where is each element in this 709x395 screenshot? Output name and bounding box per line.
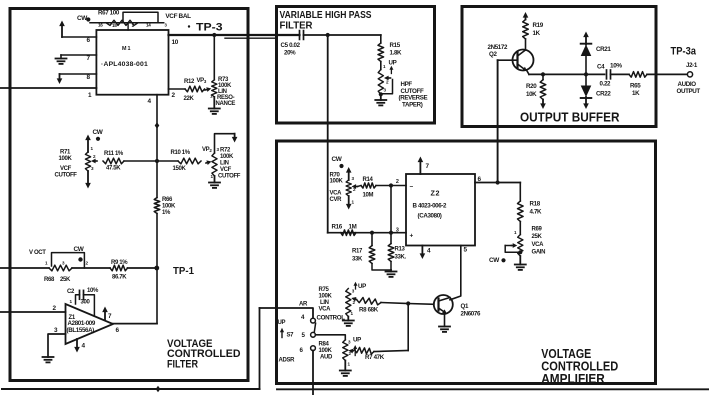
label R75: [319, 287, 330, 293]
capacitor C5: [300, 31, 304, 40]
label V OCT: [29, 250, 46, 256]
pin 3 M1: [165, 23, 168, 28]
label CW R67: [77, 15, 90, 22]
diode CR21: [581, 44, 592, 75]
label 1% R66: [162, 210, 171, 216]
svg-text:(BL1556A): (BL1556A): [67, 327, 95, 334]
resistor R10: [178, 158, 201, 164]
svg-text:R12: R12: [184, 79, 195, 85]
junction R17 node: [370, 231, 374, 235]
wire Z1 output: [113, 323, 157, 325]
pin 6 Z1: [116, 327, 120, 334]
svg-text:CUTOFF: CUTOFF: [55, 173, 78, 179]
label CR22: [596, 91, 611, 98]
svg-text:B 4023-006-2: B 4023-006-2: [413, 203, 448, 210]
resistor R66: [154, 198, 160, 214]
wiper R74: [384, 76, 391, 81]
pin 7 M1: [87, 55, 91, 62]
svg-text:TAPER): TAPER): [402, 101, 423, 108]
pin 1 Z1: [70, 299, 73, 304]
label R18: [530, 201, 541, 208]
svg-text:M1: M1: [122, 46, 132, 52]
pin 3 R72: [217, 147, 220, 152]
label VP3: [197, 78, 207, 84]
value BL1556A: [67, 327, 95, 334]
junction R73 top: [212, 33, 216, 37]
value 150K: [173, 166, 187, 172]
potentiometer R71: [85, 152, 90, 171]
wire R67 element: [90, 22, 164, 24]
label R19: [533, 22, 544, 29]
svg-text:AMPLIFIER: AMPLIFIER: [541, 372, 605, 386]
pin 16 M1: [98, 23, 103, 28]
wire output line: [529, 73, 605, 75]
svg-text:R10 1%: R10 1%: [171, 150, 191, 156]
pin 3 R74: [384, 88, 387, 93]
pin 6 M1 wire: [62, 36, 96, 38]
svg-text:R66: R66: [162, 197, 173, 203]
wire Q1 base to R7: [407, 304, 409, 351]
junction diamond AR: [156, 386, 161, 392]
resistor R67: [106, 20, 138, 25]
potentiometer R70: [346, 180, 351, 196]
pin 2 R84: [349, 351, 352, 356]
svg-text:R19: R19: [533, 22, 544, 29]
terminal 6: [311, 346, 316, 351]
junction diamond pin4: [155, 122, 160, 128]
label Z1: [69, 315, 76, 321]
svg-text:CR21: CR21: [596, 46, 611, 53]
svg-text:R84: R84: [319, 342, 330, 348]
label CW R70: [332, 156, 344, 168]
junction CR: [584, 72, 588, 76]
plus Z2: [410, 233, 414, 240]
label R15: [390, 42, 401, 49]
pin 15 M1: [112, 23, 117, 28]
wire R16 to Z2 pin3: [328, 232, 406, 234]
wiper R84: [348, 349, 353, 354]
pin 1 M1 top: [132, 23, 135, 28]
label VCF BAL: [165, 13, 191, 20]
box voltage controlled filter: [10, 9, 248, 381]
value 100K R72: [220, 154, 234, 160]
junction R69 bottom: [518, 250, 522, 254]
label R73: [218, 77, 229, 83]
svg-text:CONTROL: CONTROL: [317, 315, 346, 322]
label S7: [287, 333, 295, 339]
wire R11 to R10: [124, 160, 178, 162]
pin 4 M1: [148, 98, 152, 105]
label CVR R70: [330, 197, 343, 203]
svg-text:1M: 1M: [349, 224, 357, 231]
wire R9 to TP-1: [128, 267, 158, 269]
pin 2 Z2: [396, 179, 399, 185]
wire R72 top L: [215, 134, 235, 153]
resistor R8: [357, 298, 382, 305]
wire terminal5 to R84: [315, 335, 345, 340]
ground R72: [209, 176, 220, 188]
pin 5 Z2: [464, 247, 468, 254]
capacitor C4: [607, 70, 611, 79]
svg-text:·APL4038-001: ·APL4038-001: [101, 61, 148, 68]
resistor R65: [629, 72, 647, 78]
svg-text:22K: 22K: [184, 96, 195, 102]
value 100K R73: [218, 83, 232, 89]
svg-text:25K: 25K: [60, 277, 71, 283]
wire AR to terminal 4: [260, 308, 314, 318]
wire Z2 pin6: [475, 182, 520, 184]
box output buffer: [462, 7, 656, 127]
svg-text:Z2: Z2: [431, 189, 441, 198]
transistor Q2: [513, 39, 534, 74]
label REVERSE: [399, 95, 428, 102]
resistor R15: [378, 43, 384, 62]
resistor R14: [358, 183, 377, 188]
wire V OCT input: [0, 267, 49, 269]
wire R67 wiper to M1: [127, 24, 129, 30]
svg-text:0.22: 0.22: [600, 81, 612, 88]
terminal J2-1: [687, 72, 692, 77]
ground R13 R17: [386, 270, 397, 277]
resistor R9: [110, 265, 128, 271]
wire C5 to R15: [304, 34, 381, 36]
svg-text:UP: UP: [353, 337, 361, 344]
svg-text:R75: R75: [319, 287, 330, 293]
svg-text:33K.: 33K.: [395, 255, 407, 261]
svg-text:R17: R17: [352, 249, 363, 255]
svg-text:(CA3080): (CA3080): [418, 213, 442, 220]
pin 1 R84: [348, 362, 351, 367]
potentiometer R84: [343, 340, 348, 361]
power arrow R72: [232, 134, 238, 143]
arrow UP R75: [354, 282, 358, 289]
value 86.7K: [112, 275, 127, 281]
value 10K: [526, 91, 537, 98]
ground R84: [340, 361, 351, 376]
value 100K R71: [59, 156, 73, 162]
value 10M: [363, 193, 374, 199]
svg-text:CW: CW: [489, 257, 500, 264]
svg-text:100K: 100K: [220, 154, 234, 160]
pin 7 M1 wire: [61, 55, 96, 59]
svg-text:R72: R72: [220, 148, 231, 154]
pin 1 M1: [88, 92, 92, 99]
svg-text:100K: 100K: [319, 348, 333, 354]
label R72: [220, 148, 231, 154]
resistor R68: [49, 265, 72, 271]
op-amp Z1: [66, 304, 114, 344]
pin 3 R71: [91, 166, 94, 171]
svg-text:10%: 10%: [610, 63, 622, 70]
svg-text:VCF: VCF: [220, 167, 232, 173]
pin 4 label: [301, 314, 305, 321]
value A2801-009: [68, 320, 96, 327]
svg-text:10K: 10K: [526, 91, 537, 98]
node TP-1: [154, 265, 194, 277]
title voltage controlled amplifier: [541, 347, 618, 386]
svg-text:Q1: Q1: [461, 303, 469, 310]
junction pin2 node: [389, 183, 393, 187]
pin 1 R68: [45, 261, 48, 266]
resistor R20: [540, 74, 546, 99]
resistor R12: [185, 86, 205, 92]
label VCF R72: [220, 167, 232, 173]
label R67 100: [98, 10, 120, 17]
label UP R75: [358, 283, 366, 290]
label R71: [60, 150, 71, 156]
svg-text:V OCT: V OCT: [29, 250, 46, 256]
ic M1 body: [96, 30, 168, 95]
pin 3 R68: [62, 261, 65, 266]
svg-text:R71: R71: [60, 150, 71, 156]
pin 2 R74: [386, 80, 389, 85]
box voltage controlled amplifier: [277, 141, 656, 384]
pin 3 Z2: [396, 228, 399, 234]
title voltage controlled filter: [167, 338, 241, 371]
label RESO R73: [217, 95, 235, 101]
label NANCE R73: [216, 101, 236, 107]
wire pin6 to R18: [519, 183, 521, 202]
svg-text:A2801-009: A2801-009: [68, 320, 96, 327]
svg-text:1K: 1K: [632, 90, 640, 97]
wire Q1 emitter down: [444, 314, 446, 327]
svg-text:CUTOFF: CUTOFF: [218, 174, 241, 180]
svg-text:NANCE: NANCE: [216, 101, 236, 107]
label R69: [532, 227, 543, 233]
label LIN R75: [320, 300, 329, 306]
resistor R18: [518, 201, 524, 222]
power arrow R71 top: [85, 135, 91, 153]
value 25K R69: [532, 234, 543, 240]
ground R73: [209, 97, 220, 114]
label R10 1%: [171, 150, 191, 156]
svg-text:10: 10: [172, 39, 179, 46]
wire to J2-1: [647, 73, 687, 75]
svg-text:R7 47K: R7 47K: [365, 354, 385, 361]
svg-text:100K: 100K: [162, 204, 176, 210]
resistor R19: [523, 20, 529, 40]
diode CR22: [581, 74, 592, 98]
svg-text:100K: 100K: [59, 156, 73, 162]
svg-text:150K: 150K: [173, 166, 187, 172]
wire R69 wiper loop: [505, 246, 520, 253]
svg-text:C2: C2: [67, 289, 75, 295]
pin 1 R70: [352, 200, 355, 205]
ground Q1: [439, 327, 450, 332]
power arrow R20: [540, 100, 546, 110]
wiper R69: [512, 243, 518, 248]
pin 1 R74: [383, 64, 386, 69]
value 100K R75: [319, 294, 333, 300]
arrow UP R74: [389, 66, 393, 74]
arrow UP R84: [353, 345, 357, 356]
wiper R75: [351, 297, 356, 302]
svg-text:1%: 1%: [162, 210, 171, 216]
value 1K R65: [632, 90, 640, 97]
resistor R7: [353, 347, 375, 354]
svg-text:Q2: Q2: [489, 51, 497, 58]
wire Q2 base: [498, 59, 518, 61]
pin 7 Z1: [108, 313, 112, 320]
pin 7 Z2: [426, 163, 430, 170]
wire VHPF to VCA: [327, 35, 329, 233]
arrow S7: [280, 328, 284, 338]
label CONTROL R75: [317, 315, 346, 322]
svg-text:C4: C4: [597, 64, 605, 71]
svg-text:C5 0.02: C5 0.02: [281, 42, 301, 49]
pin 1 R72: [211, 174, 214, 179]
label CUTOFF HPF: [401, 88, 424, 95]
svg-text:10%: 10%: [87, 288, 99, 294]
wire R14 to Z2 pin2: [376, 185, 406, 187]
power arrow R71 bottom: [85, 171, 91, 189]
pin 2 Z1: [53, 305, 57, 312]
wiper R70: [352, 184, 358, 189]
svg-text:VARIABLE HIGH PASS: VARIABLE HIGH PASS: [280, 10, 372, 21]
svg-text:20%: 20%: [284, 50, 296, 57]
label R65: [630, 83, 641, 90]
capacitor C2: [76, 290, 95, 316]
resistor R13: [388, 244, 394, 262]
junction R20: [541, 72, 545, 76]
svg-text:2N6076: 2N6076: [461, 311, 481, 318]
svg-text:100K: 100K: [319, 294, 333, 300]
node TP-3a: [671, 46, 697, 58]
pin 2 R71: [93, 154, 96, 159]
wiper R73: [205, 87, 211, 92]
wire R74 wiper loop: [381, 80, 393, 94]
pin 10 M1: [172, 39, 179, 46]
svg-text:R68: R68: [44, 277, 55, 283]
potentiometer R74: [378, 70, 383, 95]
value 1.8K: [390, 50, 403, 57]
pin 5 label: [302, 332, 306, 339]
label Q1: [461, 303, 469, 310]
svg-text:R11 1%: R11 1%: [104, 151, 124, 157]
svg-text:R8 68K: R8 68K: [359, 307, 379, 314]
svg-text:R20: R20: [526, 83, 537, 90]
svg-text:FILTER: FILTER: [280, 21, 314, 32]
label ADSR: [279, 358, 296, 364]
label R8 68K: [359, 307, 379, 314]
svg-text:VP2: VP2: [202, 147, 212, 153]
pin 1 R71: [91, 146, 94, 151]
label R12: [184, 79, 195, 85]
value 4.7K: [530, 209, 543, 216]
pin 8 M1: [87, 74, 91, 81]
label J2-1: [686, 62, 698, 69]
wire Z1 pin2 input: [0, 311, 66, 313]
transistor Q1: [434, 295, 453, 314]
svg-text:2: 2: [396, 179, 399, 185]
label AUDIO OUTPUT: [677, 81, 701, 95]
svg-text:R14: R14: [363, 177, 374, 183]
ground R75: [343, 317, 354, 326]
label 20% C5: [284, 50, 296, 57]
label Z2: [431, 189, 441, 198]
label R70: [330, 173, 341, 179]
svg-text:R9 1%: R9 1%: [111, 260, 128, 266]
svg-text:TP-3: TP-3: [196, 22, 223, 34]
wire M1 pin4 down: [156, 95, 158, 198]
pin 4 Z1: [82, 343, 86, 350]
potentiometer R69: [518, 235, 523, 257]
svg-text:UP: UP: [389, 60, 397, 67]
pin 4 Z2: [427, 248, 431, 255]
label R16 1M: [332, 224, 357, 231]
label C4: [597, 64, 605, 71]
potentiometer R73: [212, 80, 217, 97]
wire R68 to R9: [72, 267, 110, 269]
label TAPER: [402, 101, 423, 108]
value B4023-006-2: [413, 203, 448, 210]
ground Z1 pin3: [43, 357, 54, 362]
pin 2 R68: [86, 261, 89, 266]
svg-text:UP: UP: [358, 283, 366, 290]
ic Z2 body: [406, 174, 475, 246]
svg-text:TP-3a: TP-3a: [671, 46, 697, 58]
ground pin7: [56, 59, 67, 64]
resistor R16: [341, 230, 356, 236]
potentiometer R72: [212, 153, 217, 176]
pin 2 R75: [353, 300, 356, 305]
value APL4038-001: [101, 61, 148, 68]
power arrow R70 top: [346, 167, 352, 180]
wire R66 to opamp out: [156, 214, 158, 324]
label 10% C2: [87, 288, 99, 294]
svg-text:CW: CW: [332, 156, 343, 163]
wire bottom bus right: [277, 388, 709, 390]
wire R15 to R74: [380, 62, 382, 70]
pin 1 R73: [210, 94, 213, 99]
value 100K R84: [319, 348, 333, 354]
label R17: [352, 249, 363, 255]
label CW R71: [93, 129, 104, 141]
svg-text:R18: R18: [530, 201, 541, 208]
svg-text:VP3: VP3: [197, 78, 207, 84]
label VCA R75: [319, 307, 332, 313]
svg-text:FILTER: FILTER: [167, 359, 198, 371]
svg-text:LIN: LIN: [220, 161, 229, 167]
label LIN R72: [220, 161, 229, 167]
svg-text:VCA: VCA: [532, 242, 545, 248]
power arrow R70 bottom: [346, 196, 352, 210]
svg-text:J2-1: J2-1: [686, 62, 698, 69]
box variable high pass filter: [277, 7, 435, 124]
label R7 47K: [365, 354, 385, 361]
svg-text:R15: R15: [390, 42, 401, 49]
pin 3 R75: [352, 289, 355, 294]
wire C4 to R65: [611, 73, 630, 75]
label CW R69: [489, 257, 506, 264]
label C2: [67, 289, 75, 295]
wire Q1 base: [408, 303, 434, 306]
minus Z2: [410, 184, 414, 191]
svg-text:R13: R13: [395, 247, 406, 253]
svg-text:ADSR: ADSR: [279, 358, 296, 364]
switch S7 arm: [314, 323, 315, 332]
power arrow pin6: [59, 21, 65, 38]
pin 6 M1: [87, 37, 91, 44]
svg-text:GAIN: GAIN: [532, 250, 546, 256]
svg-text:R67 100: R67 100: [98, 10, 120, 17]
pin 2 M1 wire: [169, 88, 186, 90]
label VCA R69: [532, 242, 545, 248]
value 25K: [60, 277, 71, 283]
svg-text:S7: S7: [287, 333, 295, 339]
pin 1 R69: [514, 230, 517, 235]
ground R69: [515, 256, 526, 270]
